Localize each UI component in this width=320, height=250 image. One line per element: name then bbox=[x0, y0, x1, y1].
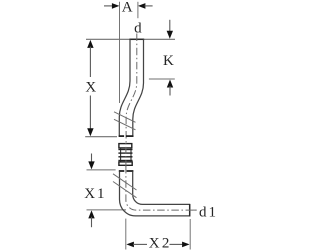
flush pipe lower piece: right wall + elbow inner curve + top edge bbox=[133, 172, 190, 205]
dimension K: top stem bbox=[169, 20, 171, 33]
flush pipe upper piece: centerline (axis) bbox=[126, 34, 137, 143]
dimension X: stem upper part bbox=[89, 47, 91, 78]
gasket: rib 4 bbox=[118, 160, 132, 161]
flush pipe upper piece: right wall with S-offset bbox=[133, 39, 144, 136]
flush pipe lower piece: left wall + elbow outer curve + bottom edge bbox=[120, 172, 190, 216]
flush pipe lower piece: centerline vertical + elbow + horizontal bbox=[126, 166, 197, 210]
break mark (lower pipe) line 2 bbox=[113, 182, 137, 198]
dimension X1: bottom boundary line (outlet axis) bbox=[87, 209, 127, 211]
dimension X2: right arrowhead (pointing right) bbox=[182, 242, 190, 248]
gasket: rib 1 bbox=[118, 149, 132, 150]
dimension X2: dimension line right part bbox=[170, 243, 184, 245]
dimension K: bottom arrowhead (pointing up) bbox=[167, 80, 173, 88]
break mark (lower pipe) line 1 bbox=[113, 174, 137, 190]
dimension X1: top arrowhead (pointing down) bbox=[88, 161, 94, 169]
dimension A: right arrowhead bbox=[138, 3, 146, 9]
dimension X1: top boundary line (lower pipe cut end) bbox=[87, 169, 116, 171]
dimension A: dimension line right part bbox=[144, 5, 152, 7]
svg-text:A: A bbox=[122, 0, 133, 15]
dimension K: top arrowhead (pointing down) bbox=[167, 31, 173, 39]
dimension X / K boundary line at pipe top bbox=[86, 38, 175, 40]
dimension X2: left arrowhead (pointing left) bbox=[126, 242, 133, 248]
dimension X1: bottom arrowhead (pointing up) bbox=[88, 210, 94, 218]
break mark (upper pipe) line 2 bbox=[114, 119, 136, 130]
dimension X: stem lower part bbox=[89, 96, 91, 131]
gasket: side walls bbox=[120, 148, 122, 162]
dimension X1: top arrowhead stem bbox=[91, 154, 93, 164]
svg-text:X2: X2 bbox=[149, 236, 172, 250]
dimension K: bottom boundary line bbox=[149, 78, 175, 80]
dimension A: left arrowhead bbox=[112, 3, 120, 9]
gasket: bottom flange bbox=[119, 162, 132, 165]
dimension X: top arrowhead (pointing up) bbox=[87, 40, 93, 48]
gasket: rib 3 bbox=[118, 156, 132, 157]
dimension X1: bottom stem bbox=[91, 217, 93, 227]
dimension X2: left extension line bbox=[125, 219, 127, 250]
svg-text:d1: d1 bbox=[199, 204, 218, 220]
dimension X: bottom arrowhead (pointing down) bbox=[87, 128, 93, 136]
flush pipe upper piece: bottom cut end cap bbox=[119, 135, 125, 137]
gasket: centerline through gasket bbox=[125, 143, 127, 170]
break mark (upper pipe) line 1 bbox=[114, 112, 136, 123]
svg-text:d: d bbox=[134, 21, 142, 37]
svg-text:X: X bbox=[85, 79, 96, 95]
flush pipe upper piece: top end cap bbox=[129, 38, 144, 40]
dimension A: dimension line left part bbox=[104, 5, 113, 7]
dimension X2: right extension line bbox=[189, 219, 191, 250]
flush pipe lower piece: outlet end cap bbox=[189, 204, 191, 217]
dimension A: right extension line (upper pipe axis extended) bbox=[137, 2, 139, 18]
d1 centerline dash before label bbox=[193, 209, 197, 211]
gasket: rib 2 bbox=[118, 152, 132, 153]
flush pipe upper piece: left wall with S-offset bbox=[119, 39, 130, 136]
dimension K: bottom stem bbox=[169, 86, 171, 96]
dimension X2: dimension line left part bbox=[133, 243, 147, 245]
svg-text:X1: X1 bbox=[84, 186, 106, 202]
gasket: top flange bbox=[119, 144, 132, 148]
dimension A: left extension line (lower pipe edge extended) bbox=[119, 2, 121, 103]
flush pipe lower piece: top cut end cap bbox=[119, 170, 125, 172]
svg-text:K: K bbox=[163, 53, 174, 69]
dimension X: bottom boundary line (upper pipe cut end level) bbox=[85, 136, 117, 138]
